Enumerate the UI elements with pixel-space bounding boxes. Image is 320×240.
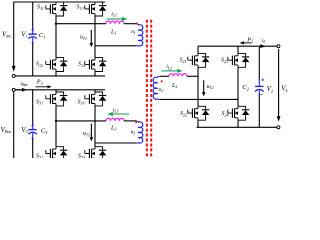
node: bottom rail port1 xyxy=(15,75,105,77)
transistor S22 xyxy=(188,106,210,120)
current arrow iBat xyxy=(16,89,23,91)
node: bottom rail port2 xyxy=(197,126,277,128)
inductor L1 xyxy=(106,21,124,24)
wire leg A port1 xyxy=(55,16,57,76)
wire W6 n2 return xyxy=(160,98,238,100)
svg-text:S23: S23 xyxy=(221,58,228,64)
svg-text:S33: S33 xyxy=(78,99,85,105)
wire leg A port3 xyxy=(55,106,57,147)
transistor S21 xyxy=(188,53,210,67)
winding n2 xyxy=(153,76,160,99)
wire W4 return xyxy=(95,142,136,144)
polarity dot n3 xyxy=(135,121,137,123)
svg-text:S24: S24 xyxy=(222,111,229,117)
voltage arrow uT3 xyxy=(90,124,92,138)
transistor S32 xyxy=(46,147,68,161)
wire leg C port2 xyxy=(197,67,199,106)
node: top rail port2 xyxy=(198,45,277,47)
current arrow iL3 xyxy=(113,113,130,115)
svg-text:S32: S32 xyxy=(36,154,43,159)
transistor S11 xyxy=(46,2,68,16)
transistor S24 xyxy=(228,106,250,120)
voltage arrow uT1 xyxy=(90,30,92,43)
wire W2 return xyxy=(95,45,136,47)
voltage arrow VL xyxy=(278,49,280,117)
node: top rail port1 xyxy=(14,1,105,3)
svg-text:S31: S31 xyxy=(36,99,43,105)
svg-text:L2: L2 xyxy=(171,83,177,89)
wire leg D port2 xyxy=(237,67,239,106)
transformer isolation dashed line 1 xyxy=(146,20,148,157)
inductor L2 xyxy=(169,74,187,77)
polarity dot n1 xyxy=(135,22,137,24)
wire source leads port2 xyxy=(198,120,238,127)
voltage arrow uT2 xyxy=(203,80,205,92)
svg-text:S12: S12 xyxy=(36,62,43,68)
current arrow iL on rail xyxy=(260,44,266,48)
transistor S33 xyxy=(85,92,107,106)
current arrow iL2 xyxy=(162,70,178,72)
node a junction dot xyxy=(55,23,57,25)
wire leg B port3 xyxy=(94,106,96,147)
terminal circle port1 xyxy=(12,74,15,77)
transistor S23 xyxy=(228,53,250,67)
winding n3 xyxy=(136,121,142,143)
svg-text:L1: L1 xyxy=(110,29,116,35)
transformer isolation dashed line 2 xyxy=(150,20,152,157)
wire V_Bat rail xyxy=(13,91,15,158)
capacitor C2 xyxy=(258,46,260,80)
inductor L3 xyxy=(106,118,124,121)
svg-text:S13: S13 xyxy=(77,5,84,11)
transistor S14 xyxy=(85,58,107,72)
wire leg B port1 xyxy=(94,16,96,76)
svg-text:L3: L3 xyxy=(110,125,116,131)
terminal circle port2 bottom xyxy=(277,126,280,129)
winding n1 xyxy=(136,24,142,46)
svg-text:S22: S22 xyxy=(180,111,187,117)
wire L2 to leg C xyxy=(187,75,198,77)
svg-text:S34: S34 xyxy=(78,154,85,159)
svg-text:S11: S11 xyxy=(37,5,44,11)
wire n2 to L2 xyxy=(160,75,169,77)
node a' junction dot xyxy=(55,120,57,122)
transistor S13 xyxy=(85,2,107,16)
wire drain leads port2 xyxy=(198,46,238,53)
transistor S12 xyxy=(46,58,68,72)
svg-text:S14: S14 xyxy=(78,62,85,68)
transistor S31 xyxy=(46,92,68,106)
transistor S34 xyxy=(85,147,107,161)
capacitor C3 xyxy=(32,90,34,125)
wire drain leads port3 xyxy=(56,90,95,92)
current arrow iL1 xyxy=(107,18,123,20)
wire L1 to n1 xyxy=(124,23,136,25)
wire W1 to transformer xyxy=(56,23,106,25)
voltage arrow V_PC xyxy=(13,2,15,67)
wire W3 to transformer xyxy=(56,120,106,122)
terminal circle port3 xyxy=(12,88,15,91)
capacitor C1 xyxy=(32,2,34,30)
terminal circle port2 top xyxy=(277,45,280,48)
svg-text:S21: S21 xyxy=(180,58,187,64)
node: top rail port3 xyxy=(15,89,105,91)
wire L3 to n3 xyxy=(124,120,136,122)
polarity dot n2 xyxy=(161,80,163,82)
